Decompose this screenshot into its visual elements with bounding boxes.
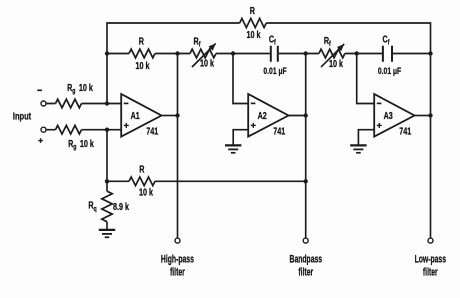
capacitor Cf (A3 integrator) 0.01 uF [383, 46, 392, 62]
svg-text:filter: filter [423, 266, 438, 278]
svg-text:Low-pass: Low-pass [415, 253, 446, 265]
svg-text:741: 741 [399, 125, 411, 136]
resistor Rg 10 k (non-inverting input) [46, 129, 107, 131]
wire A3 inverting branch [357, 54, 375, 104]
resistor Rg 10 k (inverting input) [46, 103, 107, 105]
capacitor Cf (A2 integrator) 0.01 uF [271, 46, 278, 62]
svg-text:0.01 µF: 0.01 µF [378, 66, 401, 76]
wire A2 inverting branch [233, 54, 248, 104]
resistor Rf (variable, A2 integrator) [190, 49, 216, 58]
terminal bandpass [303, 238, 308, 243]
wire A3 non-inverting to ground [358, 130, 374, 146]
ground (A3) [350, 144, 366, 146]
svg-text:10 k: 10 k [329, 58, 343, 69]
svg-text:filter: filter [170, 266, 185, 278]
svg-text:741: 741 [146, 125, 158, 136]
svg-text:R: R [250, 5, 256, 16]
op-amp A2 [248, 94, 288, 137]
wire bandpass vertical [305, 54, 307, 238]
node: A3 output [428, 113, 432, 117]
svg-text:0.01 µF: 0.01 µF [263, 66, 286, 76]
node: row/HP [175, 51, 179, 55]
svg-text:filter: filter [298, 266, 313, 278]
svg-text:741: 741 [273, 125, 285, 136]
terminal low-pass [428, 238, 433, 243]
terminal high-pass [175, 238, 180, 243]
ground (A2) [225, 144, 241, 146]
resistor R (input of A1 loop) 10 k [129, 49, 155, 58]
resistor Rf (variable, A3 integrator) [319, 49, 345, 58]
svg-text:10 k: 10 k [246, 29, 260, 40]
svg-text:A2: A2 [258, 110, 267, 121]
resistor R 10 k (damping feedback) [129, 177, 155, 186]
svg-text:10 k: 10 k [200, 57, 214, 68]
wire high-pass vertical [177, 54, 179, 238]
node: row/right [428, 51, 432, 55]
svg-text:10 k: 10 k [135, 60, 149, 71]
node: damping/left [105, 179, 109, 183]
svg-text:R: R [139, 163, 145, 174]
node: A1 non-inverting input [105, 128, 109, 132]
svg-text:High-pass: High-pass [161, 253, 194, 265]
input terminal minus [41, 101, 46, 106]
svg-text:Input: Input [13, 110, 31, 121]
wire damping feedback row [107, 180, 306, 182]
node: row/A2 inv [231, 51, 235, 55]
node: A1 output [175, 113, 179, 117]
resistor R (top feedback) [240, 18, 267, 27]
svg-text:A1: A1 [131, 110, 140, 121]
node: damping/BP [304, 179, 308, 183]
wire low-pass vertical [430, 54, 432, 238]
wire left vertical to A1 inputs [107, 54, 121, 192]
svg-text:Bandpass: Bandpass [290, 253, 323, 265]
node: row/A3 inv [355, 51, 359, 55]
svg-text:10 k: 10 k [139, 186, 153, 197]
wire A3 output [415, 115, 431, 117]
resistor Rq 8.9 k [102, 191, 112, 221]
wire A2 non-inverting to ground [233, 130, 248, 146]
wire main row [107, 53, 431, 55]
node: row/BP [304, 51, 308, 55]
svg-text:A3: A3 [384, 110, 393, 121]
svg-text:R: R [139, 35, 145, 46]
top feedback wire [107, 23, 431, 54]
op-amp A3 [374, 94, 414, 137]
wire A2 output [289, 115, 306, 117]
node: A1 inverting input [105, 101, 109, 105]
wire A1 output [162, 115, 178, 117]
op-amp A1 [121, 94, 161, 137]
node: A2 output [304, 113, 308, 117]
ground (Rq) [99, 229, 115, 231]
input terminal plus [41, 127, 46, 132]
svg-text:8.9 k: 8.9 k [113, 201, 129, 212]
node: row/left [105, 51, 109, 55]
wire Rq to ground [106, 222, 108, 230]
